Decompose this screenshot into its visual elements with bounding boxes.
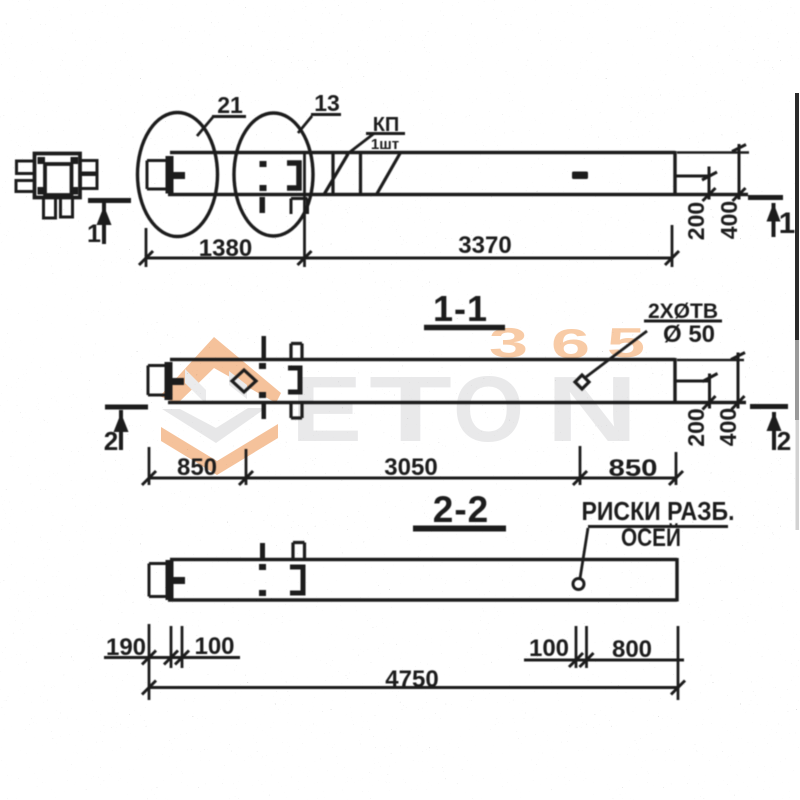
section arrow 2 right	[750, 404, 788, 409]
main dim line 4750	[149, 686, 678, 689]
beam top edge (1-1)	[170, 358, 675, 361]
WATERMARK	[160, 319, 645, 475]
KP plate slanted lines on beam	[324, 153, 401, 195]
dim line 400 (plan)	[738, 144, 741, 200]
dimension line 1380/3370	[146, 257, 672, 260]
upper left dim line 190/100	[104, 656, 240, 659]
dim line 200 (plan)	[708, 167, 711, 200]
beam bottom edge (2-2)	[168, 598, 677, 601]
beam right end (2-2)	[675, 558, 678, 602]
dim line 400 (1-1)	[737, 353, 740, 409]
right tenon (1-1)	[675, 380, 710, 383]
beam left end plate (plan)	[147, 161, 168, 190]
logo bottom orange V chevron	[161, 424, 278, 475]
double tick extension lines right	[576, 626, 587, 668]
beam right end (1-1)	[673, 358, 676, 404]
risk mark circle (2-2)	[573, 579, 584, 590]
logo gray side facet left	[185, 369, 206, 404]
dimension extension lines (plan)	[146, 153, 672, 267]
slash ticks upper-left	[142, 651, 189, 665]
beam bottom edge (plan, extends right as extension line)	[168, 193, 748, 196]
section arrow 2 left	[105, 405, 148, 410]
extension line right (beam end)	[677, 626, 680, 700]
embedded part marks (1-1)	[259, 363, 266, 369]
right side dims (1-1): extension of top edge	[677, 359, 744, 362]
hole marker (1-1)	[575, 375, 589, 389]
logo gray V chevron	[162, 408, 266, 443]
embedded marks in balloon 2 (plan)	[260, 161, 267, 167]
dim line 200 (1-1)	[708, 374, 711, 409]
double tick extension lines left	[171, 626, 182, 668]
scan right edge strip	[795, 93, 799, 340]
upper right dim line 100/800	[524, 659, 684, 662]
extension line left (beam end)	[148, 624, 151, 700]
beam left end plate (2-2)	[149, 564, 169, 597]
beam top edge (2-2)	[170, 558, 677, 561]
embedded part marks (2-2)	[260, 543, 265, 559]
section arrow 1 right	[748, 195, 783, 200]
beam bottom edge (1-1)	[168, 401, 746, 404]
node balloon ellipse 2	[234, 113, 313, 236]
slash ticks upper-right	[569, 653, 594, 667]
risk leader	[580, 528, 588, 579]
beam top edge (plan)	[170, 151, 675, 154]
beam left end plate (1-1)	[148, 366, 168, 396]
dimension line 850/3050/850	[149, 477, 676, 480]
column cross-section glyph	[35, 154, 81, 198]
logo hexagon top orange chevron	[160, 337, 281, 404]
hole leader line	[586, 331, 647, 377]
node balloon ellipse 1	[138, 113, 218, 237]
diamond mark (1-1)	[232, 370, 256, 392]
section arrow 1 left	[88, 198, 131, 203]
right side dims (plan): extension of top edge	[677, 151, 749, 154]
beam right end (plan)	[673, 151, 676, 196]
fixing mark blob in beam (plan)	[572, 172, 588, 180]
dimension extension lines (1-1)	[149, 446, 676, 485]
right tenon (plan)	[675, 175, 709, 178]
logo gray side facet right	[229, 371, 247, 399]
